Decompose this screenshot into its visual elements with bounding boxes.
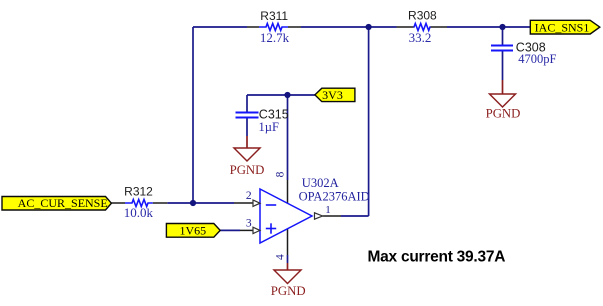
wire 3V3 horizontal bbox=[247, 94, 315, 96]
junction node 3V3/C315/pin8 bbox=[284, 92, 290, 98]
junction node R308/C308/IAC_SNS1 bbox=[499, 24, 505, 30]
svg-text:AC_CUR_SENSE: AC_CUR_SENSE bbox=[18, 196, 108, 210]
wire C308 bottom bbox=[502, 52, 504, 81]
wire PGND stub maroon C315 bbox=[246, 136, 248, 148]
wire output horizontal bbox=[341, 215, 369, 217]
ground PGND C315 bbox=[230, 148, 265, 177]
wire R312 to junction bbox=[167, 202, 234, 204]
wire PGND stub maroon op-amp bbox=[287, 263, 289, 270]
wire C308 top bbox=[502, 27, 504, 45]
port 1V65 bbox=[166, 224, 220, 238]
svg-text:2: 2 bbox=[246, 190, 252, 202]
pin 8 stub black bbox=[287, 180, 289, 203]
svg-text:PGND: PGND bbox=[271, 284, 306, 298]
svg-text:R311: R311 bbox=[260, 9, 288, 23]
svg-text:12.7k: 12.7k bbox=[260, 30, 290, 45]
svg-text:Max current 39.37A: Max current 39.37A bbox=[368, 249, 506, 266]
ground PGND op-amp bbox=[271, 270, 306, 298]
junction node output/R311/R308 bbox=[366, 24, 372, 30]
pin 3 arrow bbox=[253, 227, 260, 233]
svg-text:4700pF: 4700pF bbox=[518, 52, 556, 66]
wire C315 top bbox=[246, 95, 248, 112]
pin 1 arrow bbox=[315, 213, 323, 219]
wire pin 8 vertical bbox=[287, 95, 289, 180]
wire feedback vertical bbox=[192, 27, 194, 203]
resistor R312 bbox=[124, 185, 168, 221]
pin 1 output stub black bbox=[323, 215, 342, 217]
svg-text:33.2: 33.2 bbox=[409, 30, 432, 45]
resistor R311 bbox=[247, 9, 301, 45]
wire AC_CUR_SENSE to R312 black pin bbox=[111, 202, 125, 204]
port 3V3 bbox=[315, 88, 355, 102]
svg-text:1µF: 1µF bbox=[259, 120, 279, 134]
wire PGND stub maroon C308 bbox=[502, 80, 504, 94]
wire output vertical up bbox=[368, 27, 370, 216]
wire top between R311 and R308 bbox=[301, 26, 397, 28]
svg-text:1V65: 1V65 bbox=[179, 224, 206, 238]
svg-text:R308: R308 bbox=[408, 9, 437, 23]
svg-text:R312: R312 bbox=[124, 185, 153, 199]
pin 2 arrow bbox=[253, 200, 260, 206]
wire top between R308 and IAC_SNS1 bbox=[447, 26, 530, 28]
svg-text:10.0k: 10.0k bbox=[124, 205, 154, 220]
pin 4 stub black bbox=[287, 229, 289, 255]
port AC_CUR_SENSE bbox=[2, 196, 111, 210]
svg-text:U302A: U302A bbox=[302, 176, 339, 190]
svg-text:3: 3 bbox=[246, 218, 252, 230]
wire C315 bottom bbox=[246, 119, 248, 137]
ground PGND C308 bbox=[486, 94, 521, 121]
svg-text:3V3: 3V3 bbox=[322, 88, 343, 102]
svg-text:8: 8 bbox=[275, 171, 287, 177]
op-amp U302A bbox=[260, 176, 370, 243]
resistor R308 bbox=[397, 9, 448, 46]
wire 1V65 to pin 3 bbox=[220, 229, 240, 231]
svg-text:4: 4 bbox=[275, 254, 287, 260]
junction node R312/feedback/pin2 bbox=[190, 200, 196, 206]
wire top feedback horizontal left bbox=[193, 26, 247, 28]
svg-text:PGND: PGND bbox=[486, 107, 521, 121]
wire pin 3 stub bbox=[240, 229, 254, 231]
wire pin 4 to PGND bbox=[287, 255, 289, 263]
svg-text:PGND: PGND bbox=[230, 163, 265, 177]
capacitor C308 bbox=[491, 40, 556, 66]
svg-text:OPA2376AID: OPA2376AID bbox=[299, 189, 370, 203]
port IAC_SNS1 bbox=[530, 20, 600, 34]
svg-text:IAC_SNS1: IAC_SNS1 bbox=[535, 20, 590, 34]
wire pin 2 stub bbox=[234, 202, 254, 204]
capacitor C315 bbox=[236, 107, 289, 133]
svg-text:1: 1 bbox=[325, 204, 331, 216]
